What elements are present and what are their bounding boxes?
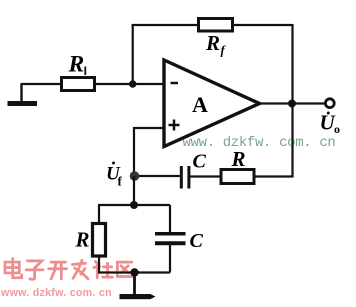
char kai — [49, 262, 67, 279]
wire junction up to feedback — [132, 24, 134, 84]
resistor R (series) — [221, 147, 254, 184]
wire series R to series C — [190, 175, 221, 177]
wire R1 to inverting input — [95, 83, 165, 85]
ground (bottom) — [120, 273, 156, 300]
node Uf — [130, 171, 140, 181]
wire ground to R1 — [21, 83, 63, 85]
wire parallel R to bottom — [98, 256, 100, 273]
svg-text:o: o — [334, 122, 340, 136]
ground (left, input side) — [8, 84, 38, 106]
capacitor C (parallel) — [155, 230, 204, 252]
wire down to parallel R — [98, 205, 100, 224]
output terminal — [325, 99, 334, 108]
capacitor C (series) — [181, 151, 206, 189]
svg-text:A: A — [192, 92, 208, 117]
svg-text:f: f — [118, 174, 123, 189]
node A (junction of R1, Rf, op-amp minus input) — [129, 80, 136, 87]
char fa — [72, 260, 88, 279]
op-amp U1 (A) — [164, 60, 260, 147]
wire op-amp output — [260, 102, 326, 104]
wire to series R — [254, 175, 293, 177]
watermark Chinese characters (bottom left) — [5, 259, 133, 280]
char qu — [117, 262, 133, 276]
svg-text:C: C — [190, 230, 204, 252]
svg-text:www. dzkfw. com. cn: www. dzkfw. com. cn — [0, 287, 112, 299]
svg-text:R: R — [68, 52, 85, 78]
resistor Rf — [199, 19, 233, 58]
wire top feedback run — [132, 24, 293, 26]
node top of parallel RC — [130, 201, 138, 209]
node output junction — [288, 100, 296, 108]
label Uf — [106, 162, 123, 189]
char zi — [26, 261, 43, 279]
resistor R1 — [62, 52, 95, 91]
svg-text:R: R — [75, 228, 90, 252]
wire Uf down to parallel RC — [133, 176, 135, 205]
label Uo — [320, 111, 341, 137]
char dian — [5, 259, 22, 278]
svg-text:R: R — [205, 31, 220, 55]
wire output node down to series RC — [291, 104, 293, 178]
wire non-inverting input to node Uf — [134, 128, 164, 176]
wire down to parallel C — [169, 205, 171, 233]
resistor R (parallel) — [75, 224, 106, 257]
wire top of parallel RC — [98, 204, 170, 206]
wire bottom of parallel RC — [98, 271, 170, 273]
node bottom junction — [130, 268, 138, 276]
svg-text:C: C — [193, 151, 207, 173]
wire parallel C to bottom — [169, 245, 171, 273]
wire series C to node Uf — [135, 175, 181, 177]
char she — [94, 262, 113, 278]
wire feedback down to output node — [291, 24, 293, 104]
svg-text:www. dzkfw. com. cn: www. dzkfw. com. cn — [183, 135, 336, 151]
